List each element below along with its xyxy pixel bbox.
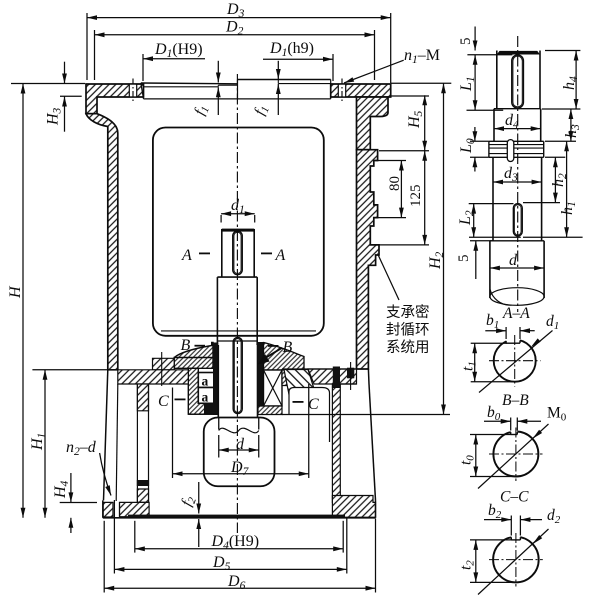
under-platform void outline right bbox=[289, 388, 330, 443]
svg-text:支承密: 支承密 bbox=[386, 304, 430, 321]
keyway upper (A-A) bbox=[233, 231, 242, 275]
Chinese note bbox=[386, 304, 430, 356]
collar bbox=[489, 140, 544, 142]
f1 left bbox=[217, 61, 219, 83]
left platform bbox=[118, 370, 189, 384]
svg-text:D7: D7 bbox=[230, 459, 250, 478]
cover plate bbox=[141, 82, 238, 85]
svg-text:B: B bbox=[181, 337, 191, 354]
svg-text:h2: h2 bbox=[550, 173, 569, 187]
right wall with bosses (hatched) bbox=[357, 150, 380, 369]
n1-M leader bbox=[344, 60, 404, 83]
right sleeve dark bbox=[258, 342, 264, 415]
keyway 1 bbox=[512, 55, 524, 108]
svg-text:C–C: C–C bbox=[500, 489, 529, 506]
right ext lines bbox=[545, 50, 580, 52]
bearing bbox=[264, 370, 283, 406]
top section bbox=[497, 51, 540, 55]
svg-text:H3: H3 bbox=[45, 107, 64, 126]
svg-text:C: C bbox=[308, 396, 319, 413]
svg-text:B: B bbox=[283, 339, 293, 356]
d1 dim bbox=[220, 215, 222, 223]
shaft lines through seal zone bbox=[217, 345, 219, 418]
svg-text:f1: f1 bbox=[192, 103, 212, 118]
D7 bbox=[172, 388, 174, 479]
center axis bbox=[236, 74, 238, 533]
svg-text:f1: f1 bbox=[252, 103, 272, 118]
svg-text:M0: M0 bbox=[547, 405, 567, 424]
svg-text:D1(h9): D1(h9) bbox=[269, 40, 314, 59]
shaft dims bbox=[467, 27, 583, 280]
B-B bbox=[478, 424, 549, 489]
L1 bbox=[474, 55, 476, 111]
keyway 2 bbox=[513, 204, 522, 236]
right platform bolt dark bbox=[347, 368, 354, 379]
svg-text:n2–d: n2–d bbox=[66, 439, 97, 458]
D3 bbox=[86, 13, 88, 80]
h3 bbox=[570, 109, 572, 141]
H left bbox=[11, 83, 85, 85]
svg-text:D2: D2 bbox=[225, 19, 244, 38]
bearing bottom band bbox=[258, 406, 282, 415]
right wall top block bbox=[357, 97, 389, 150]
bottom dims bbox=[134, 521, 136, 553]
svg-text:a: a bbox=[202, 374, 209, 389]
svg-text:h1: h1 bbox=[559, 201, 578, 215]
H2 bottom ext bbox=[332, 414, 450, 416]
d3 bbox=[493, 181, 542, 183]
svg-text:h4: h4 bbox=[561, 76, 580, 90]
right gland curve piece bbox=[264, 343, 305, 371]
D1(h9) bbox=[332, 54, 334, 81]
L0 bbox=[474, 127, 476, 141]
section letters and misc labels in main view bbox=[158, 247, 319, 413]
f1 right bbox=[277, 61, 279, 79]
svg-text:d2: d2 bbox=[547, 507, 561, 526]
svg-text:80: 80 bbox=[387, 176, 403, 191]
svg-text:t0: t0 bbox=[458, 455, 477, 465]
d dim bottom bbox=[218, 435, 220, 458]
right leg bbox=[332, 387, 340, 502]
base bottom line bbox=[103, 517, 376, 519]
gland barrel + bottom band bbox=[188, 368, 213, 414]
5 top bbox=[474, 27, 476, 51]
svg-text:系统用: 系统用 bbox=[386, 339, 430, 356]
svg-text:n1–M: n1–M bbox=[404, 47, 440, 66]
svg-text:C: C bbox=[158, 393, 169, 410]
svg-text:H4: H4 bbox=[52, 480, 71, 499]
svg-text:t2: t2 bbox=[458, 560, 477, 570]
d section bbox=[490, 240, 544, 242]
svg-text:d4: d4 bbox=[505, 112, 519, 131]
svg-text:d: d bbox=[509, 252, 518, 269]
right flange of gland + seat band (opposite hatch) bbox=[282, 370, 304, 386]
5 bottom bbox=[475, 241, 477, 279]
svg-text:D6: D6 bbox=[227, 573, 246, 592]
svg-text:L0: L0 bbox=[458, 138, 477, 154]
svg-text:5: 5 bbox=[458, 38, 474, 46]
svg-text:h3: h3 bbox=[563, 124, 582, 138]
svg-text:A–A: A–A bbox=[502, 305, 530, 322]
top flange right (hatched) bbox=[331, 84, 391, 97]
svg-text:D5: D5 bbox=[212, 554, 231, 573]
bottom blob (cap) bbox=[204, 418, 275, 487]
D1(H9) bbox=[142, 54, 144, 81]
A-A bbox=[479, 331, 553, 393]
h2 bbox=[554, 157, 556, 202]
n2-d leader bbox=[100, 453, 111, 496]
raised floor strip bbox=[153, 358, 175, 370]
D2 bbox=[94, 30, 96, 80]
top flange left (hatched) bbox=[86, 84, 144, 114]
seal boxes with 'a' bbox=[198, 373, 214, 388]
right skirt bbox=[367, 369, 370, 384]
dark recess band bbox=[128, 515, 345, 518]
svg-text:H: H bbox=[7, 285, 24, 299]
platform bolt line left bbox=[161, 352, 163, 386]
bottom line of seat bbox=[282, 414, 336, 416]
svg-text:a: a bbox=[202, 390, 209, 405]
right top ext + H2/H5 bbox=[391, 82, 452, 84]
inner chamber rounded rect bbox=[153, 128, 324, 336]
right platform near wall bbox=[308, 369, 357, 384]
feet bbox=[103, 502, 113, 517]
d bbox=[490, 267, 544, 269]
svg-text:封循环: 封循环 bbox=[386, 322, 430, 339]
d3 section bbox=[492, 157, 494, 241]
svg-text:d3: d3 bbox=[504, 165, 518, 184]
svg-text:H2: H2 bbox=[427, 251, 446, 270]
h4 bbox=[575, 51, 577, 110]
C-C bbox=[478, 529, 549, 595]
svg-text:d: d bbox=[236, 436, 245, 453]
svg-text:D1(H9): D1(H9) bbox=[154, 41, 203, 60]
svg-text:5: 5 bbox=[456, 255, 472, 263]
keyway lower (B-B level) bbox=[233, 338, 242, 414]
svg-text:H5: H5 bbox=[406, 110, 425, 129]
bolt centerline left bbox=[132, 79, 134, 104]
left skirt bbox=[104, 370, 108, 501]
H3 bbox=[64, 62, 66, 84]
dark corner under gland bbox=[204, 403, 219, 414]
section 2 bbox=[493, 109, 495, 142]
svg-text:f2: f2 bbox=[179, 493, 199, 509]
sleeve left dark bbox=[213, 343, 218, 416]
svg-text:d1: d1 bbox=[231, 197, 245, 216]
section titles/labels bbox=[458, 305, 567, 570]
svg-text:L2: L2 bbox=[457, 210, 476, 226]
svg-text:B–B: B–B bbox=[502, 392, 529, 409]
svg-text:d1: d1 bbox=[546, 313, 559, 332]
80 bbox=[375, 160, 406, 162]
f2 bbox=[198, 482, 200, 514]
svg-text:D3: D3 bbox=[226, 1, 245, 20]
L2 bbox=[469, 203, 514, 205]
H1 bbox=[32, 369, 108, 371]
svg-text:L1: L1 bbox=[458, 76, 477, 92]
H4 bbox=[70, 473, 72, 502]
svg-text:b1: b1 bbox=[486, 312, 499, 331]
left leg bbox=[137, 384, 148, 411]
bolt centerline right bbox=[341, 79, 343, 104]
svg-text:H1: H1 bbox=[29, 433, 48, 451]
svg-text:b0: b0 bbox=[487, 404, 501, 423]
h1 bbox=[566, 141, 568, 237]
svg-text:A: A bbox=[181, 247, 192, 264]
svg-text:A: A bbox=[275, 247, 286, 264]
left wall (hatched band) bbox=[86, 114, 118, 370]
d4 bbox=[494, 128, 541, 130]
svg-text:125: 125 bbox=[408, 185, 424, 208]
left gland curve + flange bbox=[174, 343, 213, 369]
svg-text:D4(H9): D4(H9) bbox=[211, 533, 260, 552]
svg-text:t1: t1 bbox=[460, 361, 479, 371]
